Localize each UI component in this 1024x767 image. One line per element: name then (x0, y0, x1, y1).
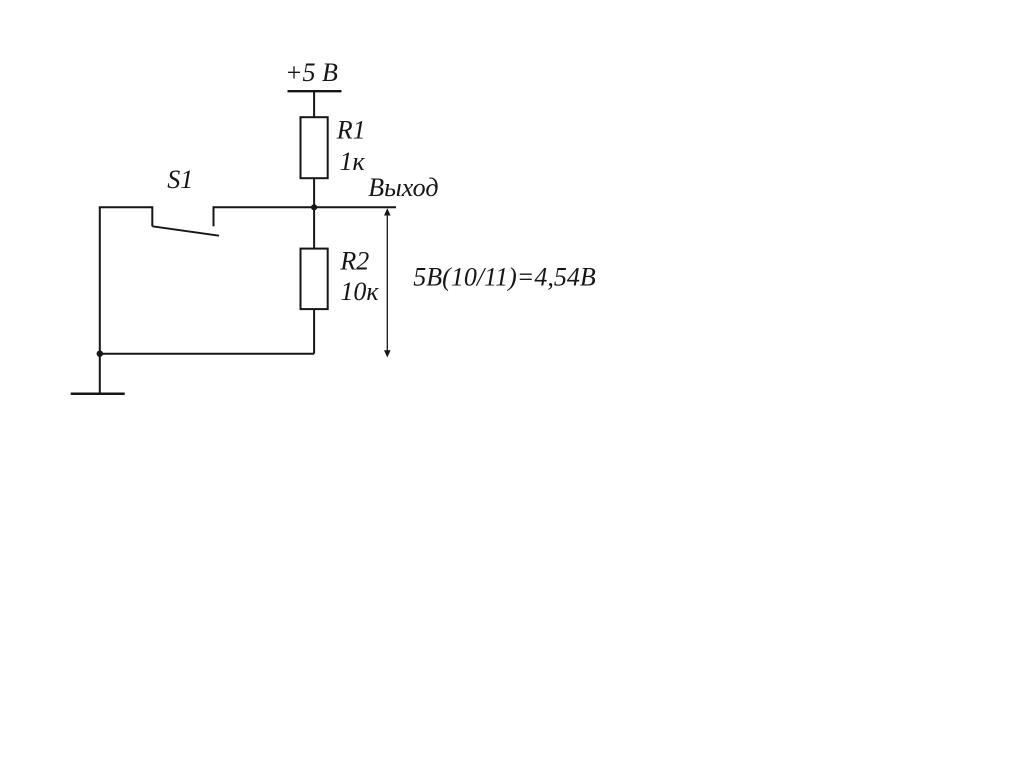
wire rail to R1 (313, 91, 315, 117)
node ground junction dot (97, 351, 103, 357)
resistor R2 (301, 249, 328, 310)
svg-text:Выход: Выход (368, 173, 438, 202)
svg-text:1к: 1к (340, 147, 366, 176)
svg-text:S1: S1 (167, 165, 193, 194)
power rail bar (288, 90, 342, 92)
svg-text:R1: R1 (336, 116, 366, 145)
ground stem (99, 354, 101, 394)
node output junction dot (311, 204, 317, 210)
switch S1 right contact stub (213, 206, 215, 226)
svg-text:10к: 10к (340, 277, 379, 306)
resistor R1 (301, 117, 328, 178)
switch S1 left contact stub (151, 206, 153, 226)
wire top left segment (99, 206, 153, 208)
svg-text:5В(10/11)=4,54В: 5В(10/11)=4,54В (413, 263, 596, 292)
wire left vertical (99, 207, 101, 353)
svg-text:R2: R2 (339, 247, 369, 276)
switch S1 blade (152, 226, 219, 235)
arrowhead top (384, 208, 391, 215)
svg-text:+5 В: +5 В (285, 58, 338, 87)
arrowhead bottom (384, 350, 391, 357)
wire R2 to bottom rail (313, 309, 315, 354)
wire R1 to output node (313, 178, 315, 207)
wire bottom rail (100, 353, 314, 355)
wire node to R2 (313, 207, 315, 248)
ground bar (71, 392, 125, 395)
wire output node right segment (214, 206, 397, 208)
dimension arrow line (386, 210, 388, 356)
